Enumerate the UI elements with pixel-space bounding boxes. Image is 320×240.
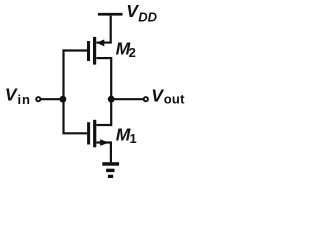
transistor M1 (NMOS) drain wire	[96, 124, 111, 126]
transistor M1 gate bar	[87, 122, 90, 144]
transistor M2 source arrow (points left into channel)	[96, 39, 104, 46]
svg-text:V: V	[5, 85, 18, 105]
wire output bus (M2 drain to M1 drain)	[110, 57, 112, 126]
node output junction	[108, 96, 115, 103]
transistor M2 drain wire	[96, 57, 111, 59]
label Vin	[5, 85, 31, 107]
input terminal circle	[36, 97, 40, 101]
svg-text:2: 2	[129, 45, 136, 60]
svg-text:V: V	[151, 85, 164, 105]
node input junction	[60, 96, 67, 103]
svg-text:in: in	[18, 92, 31, 107]
output terminal circle	[144, 97, 148, 101]
power rail VDD bar	[98, 13, 123, 16]
ground bar 3	[108, 175, 113, 178]
svg-text:out: out	[164, 92, 185, 107]
transistor M2 (PMOS) gate bar	[87, 41, 90, 61]
label M2	[116, 39, 136, 60]
wire VDD to M2 source	[96, 16, 110, 43]
transistor M2 channel bar	[93, 37, 96, 65]
wire output to terminal	[111, 98, 143, 100]
label M1	[116, 124, 137, 146]
label Vout	[151, 85, 185, 106]
ground bar 1	[102, 162, 119, 166]
wire M2 gate horizontal	[64, 49, 88, 51]
transistor M1 channel bar	[93, 120, 96, 148]
transistor M1 source arrow (points right to source)	[100, 139, 109, 146]
label VDD	[126, 1, 157, 25]
wire input to gate bus	[41, 98, 64, 100]
svg-text:DD: DD	[138, 10, 157, 25]
transistor M1 source wire	[96, 143, 111, 163]
ground bar 2	[106, 169, 114, 172]
wire gate bus vertical	[64, 49, 88, 133]
svg-text:1: 1	[130, 131, 137, 146]
